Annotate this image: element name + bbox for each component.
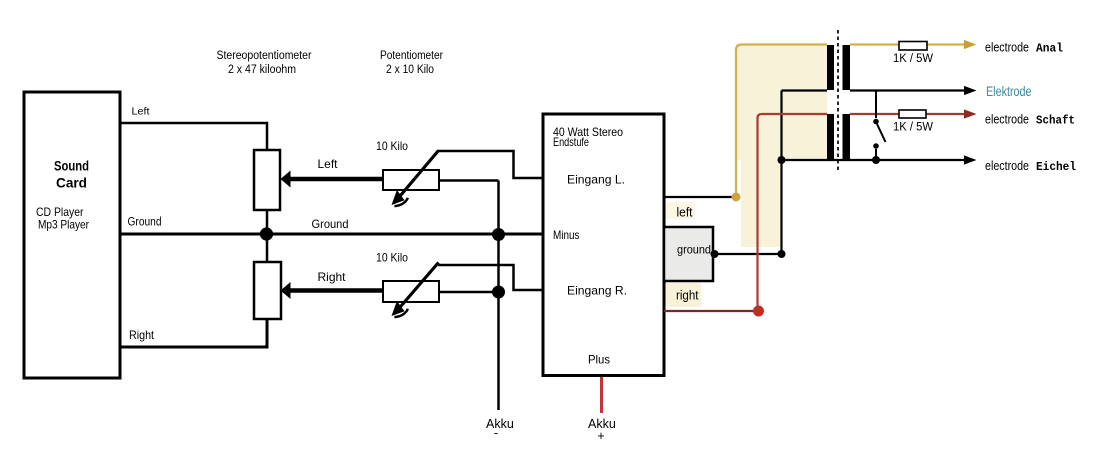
- svg-text:10 Kilo: 10 Kilo: [376, 139, 408, 153]
- svg-text:2 x 47 kiloohm: 2 x 47 kiloohm: [228, 64, 296, 76]
- svg-text:Stereopotentiometer: Stereopotentiometer: [217, 50, 312, 62]
- svg-text:Potentiometer: Potentiometer: [380, 50, 443, 62]
- svg-text:Schaft: Schaft: [1036, 114, 1075, 128]
- svg-text:-: -: [494, 426, 498, 440]
- svg-text:Anal: Anal: [1036, 42, 1063, 56]
- svg-text:Card: Card: [56, 175, 87, 191]
- svg-text:Left: Left: [132, 106, 150, 118]
- svg-text:Eichel: Eichel: [1036, 160, 1076, 174]
- svg-text:Akku: Akku: [486, 417, 514, 431]
- svg-text:Minus: Minus: [553, 228, 580, 242]
- svg-text:Endstufe: Endstufe: [553, 135, 589, 149]
- svg-text:1K / 5W: 1K / 5W: [893, 122, 933, 134]
- svg-text:Left: Left: [318, 157, 339, 171]
- svg-text:ground: ground: [677, 243, 711, 257]
- svg-text:Eingang L.: Eingang L.: [567, 173, 625, 187]
- svg-text:Sound: Sound: [54, 158, 89, 174]
- svg-text:electrode: electrode: [985, 158, 1029, 173]
- svg-text:electrode: electrode: [985, 112, 1029, 127]
- svg-text:10 Kilo: 10 Kilo: [376, 251, 408, 265]
- svg-text:right: right: [676, 289, 699, 303]
- svg-text:left: left: [677, 205, 693, 220]
- svg-text:Eingang R.: Eingang R.: [567, 284, 627, 298]
- svg-text:electrode: electrode: [985, 40, 1029, 55]
- svg-text:1K / 5W: 1K / 5W: [893, 53, 933, 65]
- svg-text:Ground: Ground: [312, 217, 349, 231]
- svg-text:Right: Right: [318, 270, 347, 284]
- svg-text:Mp3 Player: Mp3 Player: [38, 218, 89, 232]
- svg-text:2 x 10 Kilo: 2 x 10 Kilo: [386, 64, 434, 76]
- svg-text:Ground: Ground: [128, 217, 162, 229]
- svg-text:+: +: [597, 429, 604, 443]
- svg-text:Right: Right: [129, 328, 155, 342]
- svg-text:Plus: Plus: [588, 353, 610, 367]
- svg-text:Elektrode: Elektrode: [986, 83, 1032, 99]
